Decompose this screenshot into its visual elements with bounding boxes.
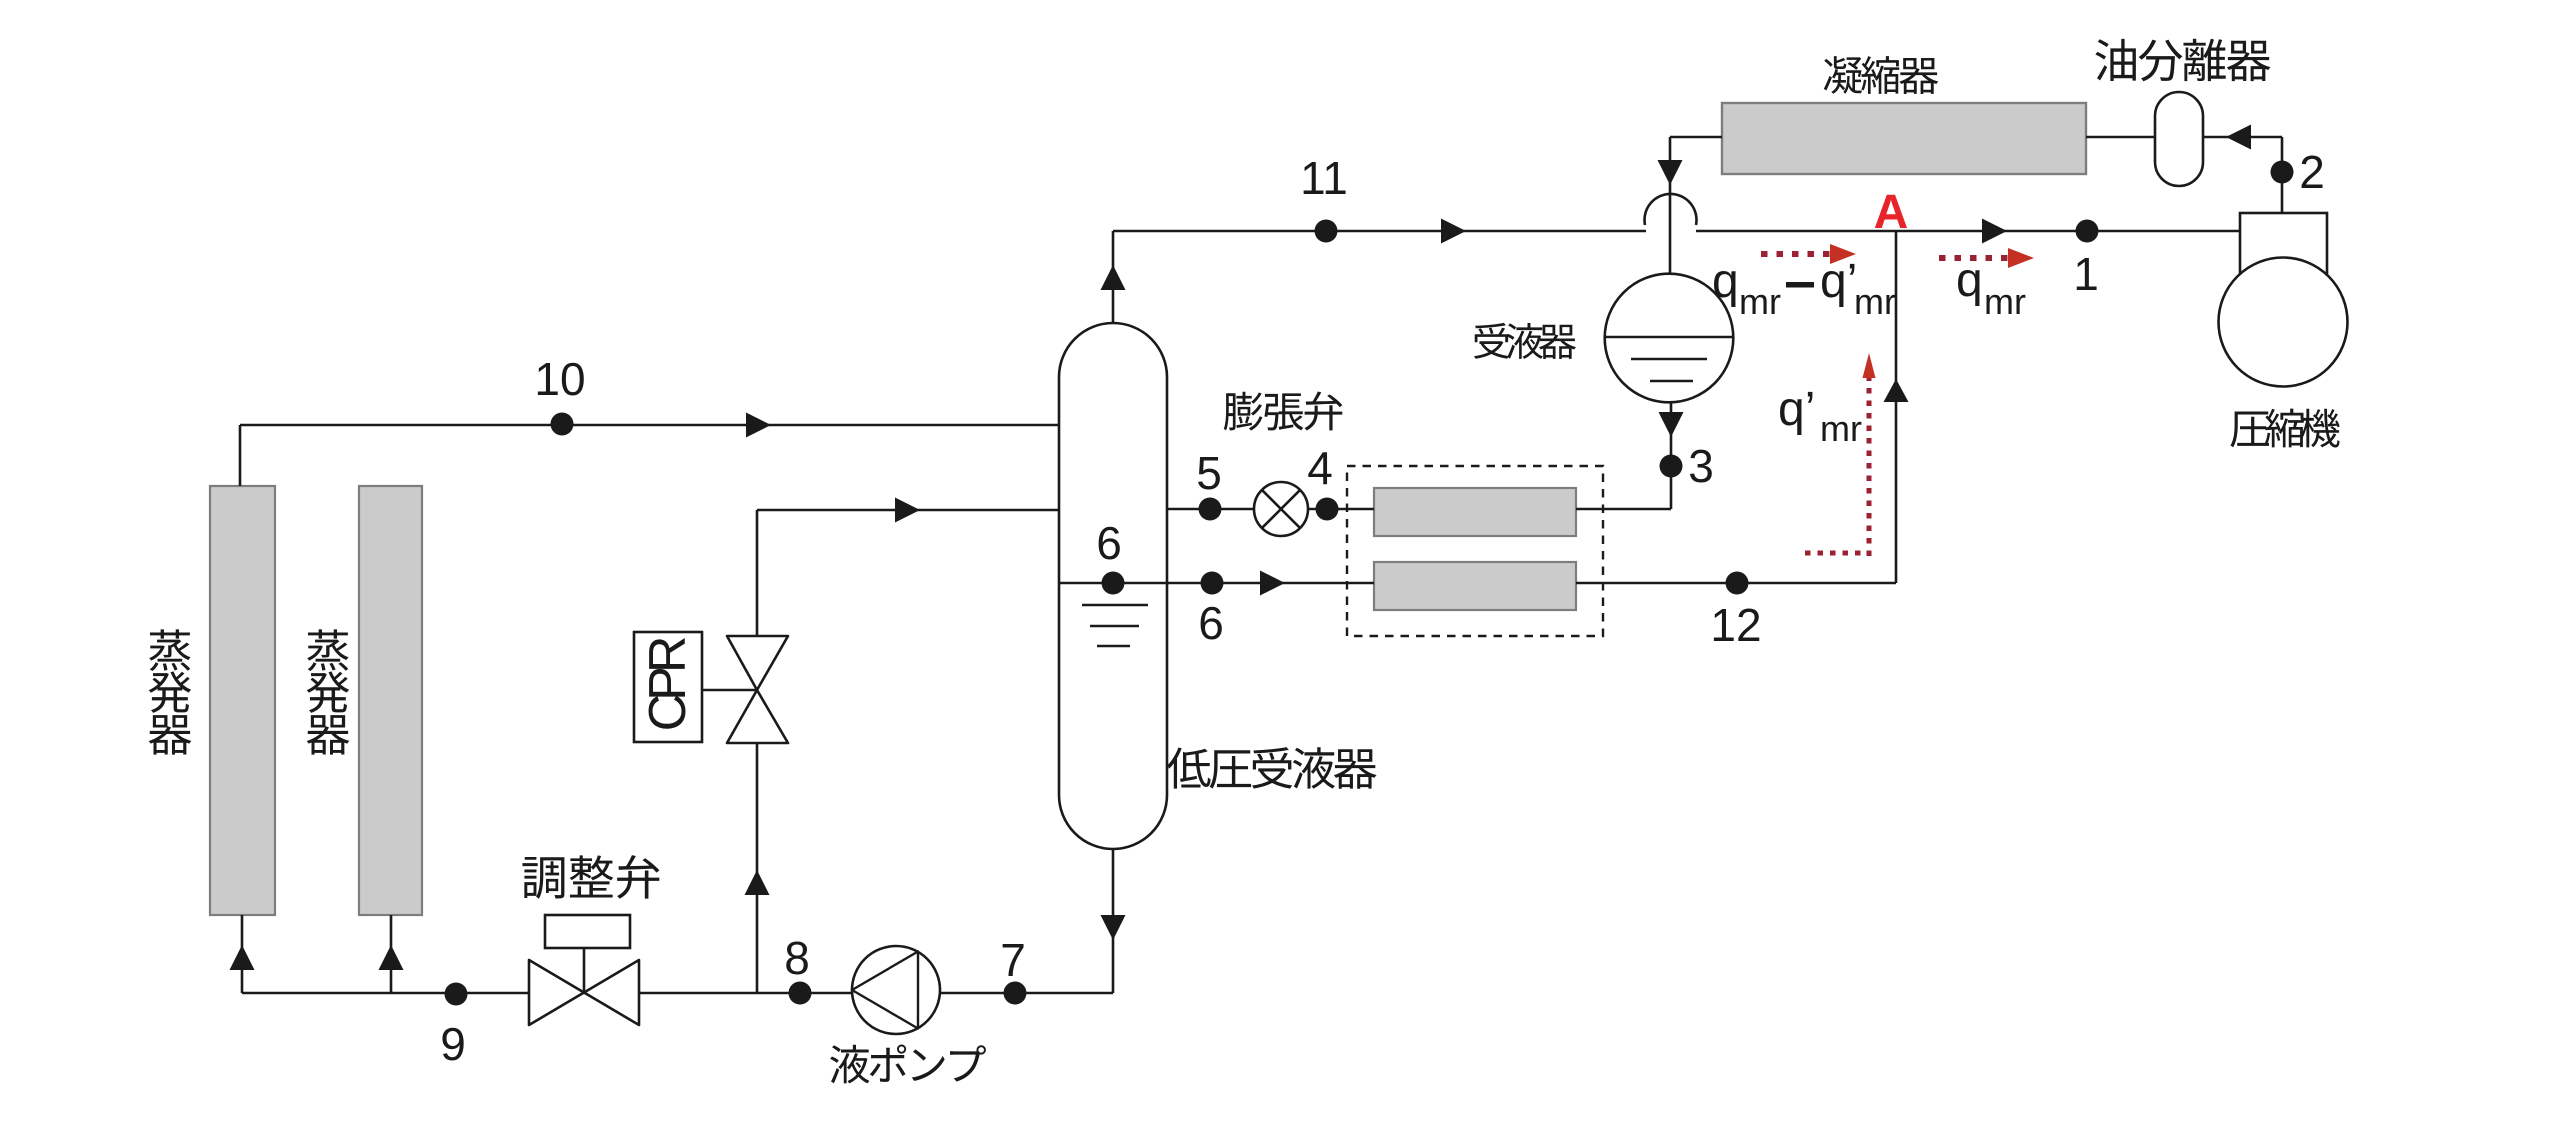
flow arrow left into oil separator <box>2226 125 2251 150</box>
red dotted arrow q_mr - q'_mr <box>1761 251 1832 257</box>
red dotted arrow q'_mr (vertical with foot) <box>1805 551 1869 556</box>
compressor body (circle) <box>2219 258 2348 387</box>
svg-text:7: 7 <box>1000 934 1026 986</box>
svg-text:10: 10 <box>534 353 585 405</box>
wire: CPR branch to LP receiver (point 8 riser) <box>757 509 1059 512</box>
wire: oil separator to compressor corner <box>2203 136 2282 139</box>
wire: line 6 through LP receiver to heat exchanger <box>1059 582 1374 585</box>
wire: bypass riser x=1896 (q'mr) from line 12 to A <box>1895 231 1898 583</box>
label 蒸発器 (evaporator 2, vertical) <box>307 629 350 754</box>
heat-exchanger lower coil (gray) <box>1374 562 1576 610</box>
node 9 <box>445 983 468 1006</box>
svg-text:5: 5 <box>1196 447 1222 499</box>
svg-text:6: 6 <box>1198 597 1224 649</box>
wire: condenser left to receiver (vertical, node down-arrow) <box>1670 136 1722 139</box>
node 5 <box>1199 498 1222 521</box>
svg-text:4: 4 <box>1307 442 1333 494</box>
node 11 <box>1315 220 1338 243</box>
evaporator 1 body (gray) <box>210 486 275 915</box>
wire: receiver to point 3 and heat exchanger <box>1670 402 1673 509</box>
wire: bottom line 9 from evaporators to regulating valve <box>242 992 529 995</box>
wire: LP receiver top riser <box>1112 231 1115 323</box>
receiver liquid mark 2 <box>1650 380 1693 383</box>
wire: regulating valve to pump (points 8) <box>639 992 852 995</box>
node 4 <box>1316 498 1339 521</box>
wire jump arc over receiver drop line <box>1644 194 1696 225</box>
wire: main line A-junction to compressor (point 1) <box>1896 230 2240 233</box>
LP receiver liquid mark 3 <box>1097 645 1130 648</box>
svg-text:mr: mr <box>1854 281 1896 322</box>
svg-text:9: 9 <box>440 1018 466 1070</box>
svg-text:q: q <box>1956 254 1983 307</box>
evaporator 2 body (gray) <box>359 486 422 915</box>
flow arrow up on bypass riser <box>1884 379 1909 402</box>
wire: expansion valve line (points 5,4) <box>1167 508 1254 511</box>
svg-text:q’: q’ <box>1820 255 1857 308</box>
svg-text:6: 6 <box>1096 517 1122 569</box>
regulating valve actuator box <box>545 915 630 948</box>
compressor inlet box <box>2240 213 2327 276</box>
flow arrow right on CPR branch <box>895 498 920 523</box>
label 液ポンプ (liquid pump) <box>830 1044 986 1083</box>
flow arrow down into receiver branch <box>1658 160 1683 185</box>
wire: jump-arc continuation to A-junction <box>1696 230 1896 233</box>
wire: evaporator 1 feed riser <box>241 915 244 993</box>
wire: line 11 from LP receiver top to jump-arc <box>1113 230 1646 233</box>
label 受液器 (receiver) <box>1474 323 1576 359</box>
svg-text:mr: mr <box>1820 408 1862 449</box>
flow arrow right on line 11 <box>1441 219 1466 244</box>
flow arrow down to pump line <box>1101 915 1126 940</box>
svg-text:q: q <box>1712 255 1739 308</box>
svg-text:A: A <box>1874 186 1909 239</box>
node 6 (in vessel) <box>1102 572 1125 595</box>
label 圧縮機 (compressor) <box>2230 409 2339 448</box>
svg-text:CPR: CPR <box>639 637 697 731</box>
flow arrow up to line 11 from LP receiver <box>1101 265 1126 290</box>
svg-text:11: 11 <box>1300 152 1348 204</box>
flow arrow up on CPR riser <box>745 870 770 895</box>
wire: evaporator 2 feed riser <box>390 915 393 993</box>
node 12 <box>1726 572 1749 595</box>
LP receiver liquid mark 1 <box>1082 604 1148 607</box>
condenser body (gray) <box>1722 103 2086 174</box>
node 2 <box>2271 161 2294 184</box>
wire: line 10 evaporator to LP receiver <box>240 424 1059 427</box>
LP receiver liquid mark 2 <box>1090 625 1139 628</box>
node 1 <box>2076 220 2099 243</box>
node 6 (outlet) <box>1201 572 1224 595</box>
label 低圧受液器 (LP receiver) <box>1167 747 1376 789</box>
label 油分離器 (oil separator) <box>2095 39 2270 82</box>
label 膨張弁 (expansion valve) <box>1224 392 1343 431</box>
svg-text:12: 12 <box>1710 599 1761 651</box>
regulating valve bowtie <box>529 960 584 1025</box>
label 蒸発器 (evaporator 1, vertical) <box>149 629 192 754</box>
svg-text:2: 2 <box>2299 146 2325 198</box>
svg-text:8: 8 <box>784 932 810 984</box>
svg-text:mr: mr <box>1739 281 1781 322</box>
node 8 <box>789 982 812 1005</box>
flow arrow right on line 10 <box>746 413 771 438</box>
node 3 <box>1660 455 1683 478</box>
flow arrow right on line 1 <box>1982 219 2007 244</box>
svg-text:3: 3 <box>1688 440 1714 492</box>
flow arrow down out of receiver <box>1659 412 1684 437</box>
wire: line 12 from heat exchanger to riser <box>1576 582 1896 585</box>
CPR controller box <box>634 632 702 742</box>
flow arrow right on line 6 <box>1260 571 1285 596</box>
wire: CPR box to valve <box>702 689 757 692</box>
expansion valve symbol (circle-X) <box>1254 482 1308 536</box>
heat-exchanger dashed enclosure <box>1347 466 1603 636</box>
wire: condenser right to oil separator <box>2086 136 2155 139</box>
wire: pump to LP receiver bottom (point 7) <box>940 992 1113 995</box>
flow arrow up into evaporator 1 <box>230 945 255 970</box>
wire: compressor riser (point 2) <box>2281 137 2284 213</box>
node 7 <box>1004 982 1027 1005</box>
CPR pilot valve bowtie (vertical) <box>727 636 788 690</box>
liquid pump (circle with triangle) <box>852 946 940 1034</box>
receiver liquid mark 1 <box>1631 358 1707 361</box>
low-pressure receiver vessel (capsule) <box>1059 323 1167 849</box>
svg-text:mr: mr <box>1984 281 2026 322</box>
svg-text:1: 1 <box>2073 248 2099 300</box>
flow arrow up into evaporator 2 <box>379 945 404 970</box>
label 調整弁 (regulating valve) <box>522 855 659 899</box>
red dotted arrow q_mr <box>1939 255 2010 261</box>
receiver liquid level chord <box>1605 336 1733 339</box>
label 凝縮器 (condenser) <box>1824 56 1939 94</box>
svg-text:q’: q’ <box>1778 383 1815 436</box>
heat-exchanger upper coil (gray) <box>1374 488 1576 536</box>
node 10 <box>551 413 574 436</box>
oil separator vessel <box>2155 92 2203 186</box>
receiver vessel (circle) <box>1605 274 1734 403</box>
